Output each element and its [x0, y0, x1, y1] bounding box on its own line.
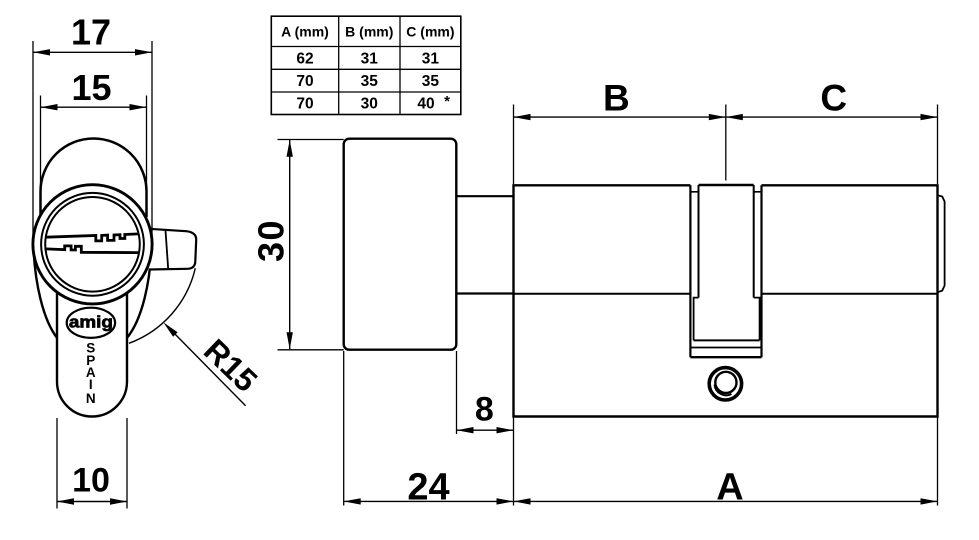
svg-text:C (mm): C (mm)	[406, 24, 454, 40]
svg-text:31: 31	[422, 51, 440, 68]
svg-text:35: 35	[361, 73, 379, 90]
svg-text:amig: amig	[69, 313, 113, 332]
svg-text:70: 70	[296, 96, 313, 113]
svg-text:8: 8	[475, 391, 494, 429]
svg-text:*: *	[444, 93, 450, 110]
svg-text:62: 62	[296, 51, 313, 68]
svg-text:10: 10	[72, 462, 110, 500]
svg-text:31: 31	[361, 51, 379, 68]
svg-text:C: C	[820, 78, 847, 119]
svg-text:70: 70	[296, 73, 313, 90]
svg-text:35: 35	[422, 73, 440, 90]
svg-text:30: 30	[361, 96, 378, 113]
svg-text:A (mm): A (mm)	[281, 24, 329, 40]
svg-text:A: A	[716, 466, 743, 508]
svg-text:24: 24	[407, 466, 449, 508]
svg-text:40: 40	[417, 96, 434, 113]
svg-text:B: B	[603, 78, 630, 119]
svg-text:17: 17	[71, 12, 111, 53]
svg-text:B (mm): B (mm)	[345, 24, 393, 40]
svg-text:15: 15	[71, 67, 111, 108]
svg-text:N: N	[86, 391, 96, 406]
svg-text:30: 30	[251, 219, 292, 262]
svg-text:I: I	[89, 377, 93, 392]
